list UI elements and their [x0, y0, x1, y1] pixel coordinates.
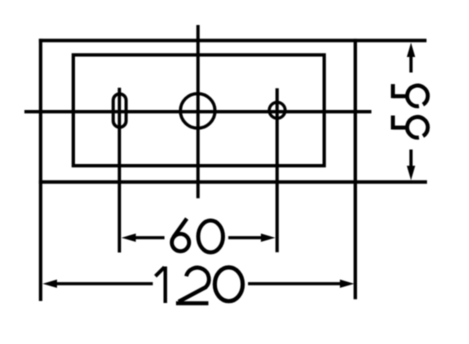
arrowhead 120 right [340, 280, 354, 288]
main hole circle [180, 94, 215, 129]
arrowhead 55 up [407, 43, 415, 57]
label 55: upper rotated digit 5 [393, 84, 428, 106]
small hole circle [269, 102, 285, 118]
label 120: digit 2 arc and diagonal [179, 268, 209, 302]
outer plate bottom edge + 55 extension line [39, 180, 427, 183]
dimension line 120 left segment [56, 282, 153, 285]
arrowhead 60 right [261, 234, 275, 242]
label 60: digit 6 diagonal [173, 219, 186, 238]
dimension line 55 top segment [409, 56, 412, 73]
horizontal centerline [24, 110, 371, 113]
label 60: digit 6 bowl [172, 234, 189, 251]
arrowhead 120 left [43, 280, 57, 288]
label 55: lower rotated digit 5 [393, 115, 428, 137]
small hole centerline + 60 extension line [275, 88, 278, 252]
label 120: digit 2 base bar [176, 301, 208, 305]
inner plate rectangle [73, 55, 324, 166]
label 60: digit 0 [198, 221, 223, 253]
outer plate left edge + 120 extension line [39, 39, 42, 301]
outer plate right edge + 120 extension line [354, 39, 357, 299]
slot centerline + 60 extension line [118, 88, 121, 253]
label 120: digit 1 flag [155, 267, 164, 276]
label 120: digit 1 stem [164, 267, 168, 304]
outer plate top edge + 55 extension line [39, 39, 427, 42]
vertical centerline through main hole [196, 25, 199, 198]
dimension line 60 right segment [228, 236, 261, 239]
dimension line 120 right segment [248, 282, 341, 285]
arrowhead 55 down [407, 166, 415, 180]
label 120: digit 0 [215, 267, 243, 301]
dimension line 60 left segment [134, 236, 165, 239]
dimension line 55 bottom segment [409, 150, 412, 168]
arrowhead 60 left [121, 234, 135, 242]
mounting slot (obround) [113, 94, 126, 127]
